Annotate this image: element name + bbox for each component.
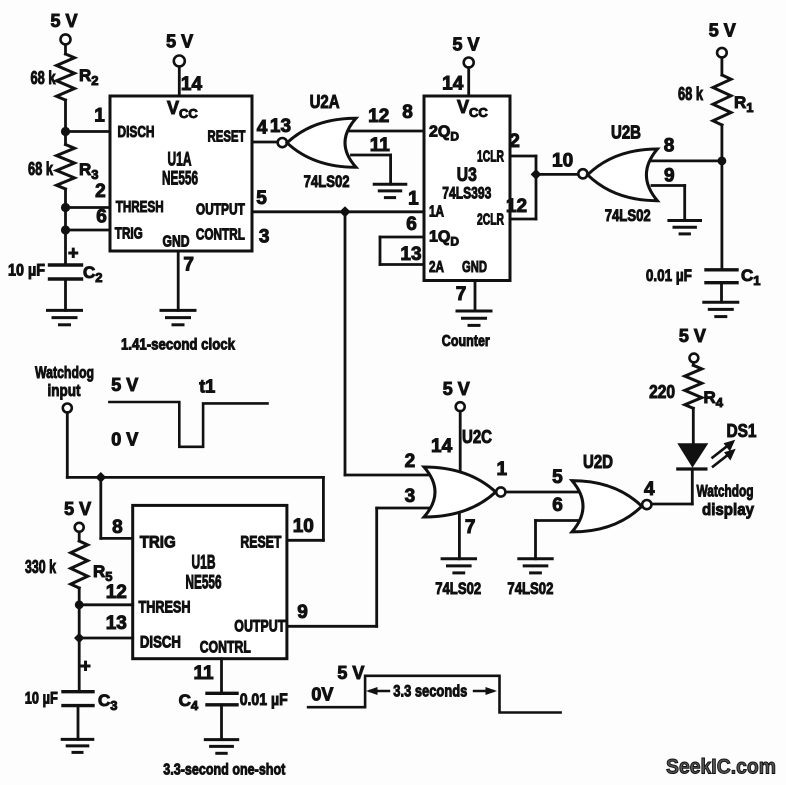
resistor R2 (57, 54, 75, 100)
svg-text:1.41-second clock: 1.41-second clock (121, 337, 235, 354)
svg-text:TRIG: TRIG (140, 533, 176, 552)
LED light arrow 2 (713, 454, 730, 467)
wire 5V to R5 (78, 532, 81, 541)
svg-text:11: 11 (193, 663, 214, 684)
inverter bubble U2D (642, 500, 651, 509)
wire C1 to ground (720, 283, 723, 303)
svg-text:0.01 µF: 0.01 µF (646, 266, 692, 285)
svg-text:7: 7 (183, 255, 194, 276)
wire U1B output to U2C pin3 (287, 625, 377, 628)
wire pin11 to C4 (220, 659, 223, 694)
capacitor C2 (50, 265, 82, 279)
svg-text:2: 2 (95, 181, 106, 202)
svg-text:68 k: 68 k (28, 159, 54, 179)
wire C3 to ground (77, 706, 80, 740)
waveform 3.3s trace (308, 676, 560, 713)
wire to RESET (U1B) (322, 477, 325, 540)
svg-text:12: 12 (106, 582, 127, 603)
svg-text:5 V: 5 V (50, 11, 77, 31)
ground (U2C pin7) (442, 559, 475, 573)
svg-text:5 V: 5 V (64, 499, 91, 519)
wire 1QD-2A feedback loop (380, 236, 424, 239)
svg-text:TRIG: TRIG (115, 225, 143, 242)
svg-text:5 V: 5 V (443, 379, 470, 399)
svg-text:0V: 0V (311, 685, 333, 705)
node DISCH junction (61, 127, 70, 136)
wire pin14 VCC (U3) (467, 68, 470, 97)
input terminal (Watchdog input) (63, 404, 72, 413)
node THRESH junction (61, 203, 70, 212)
wire LED to U2D output (691, 469, 694, 504)
wire pin1 DISCH (66, 130, 111, 133)
ground (below C2) (48, 310, 82, 324)
capacitor C3 (63, 692, 93, 706)
wire U2C pin3 (377, 507, 429, 510)
node THRESH junction (U1B) (75, 600, 84, 609)
LED DS1 triangle (679, 444, 706, 466)
svg-text:74LS02: 74LS02 (304, 172, 350, 191)
svg-text:U2D: U2D (583, 452, 613, 472)
svg-text:DISCH: DISCH (140, 633, 181, 652)
LED light arrow 1 (713, 445, 730, 458)
wire pin2 THRESH (66, 206, 111, 209)
wire node to TRIG (99, 477, 102, 538)
svg-text:4: 4 (257, 118, 268, 139)
svg-text:9: 9 (664, 166, 675, 187)
svg-text:6: 6 (96, 207, 107, 228)
svg-text:Watchdog: Watchdog (35, 363, 94, 382)
svg-text:2A: 2A (429, 259, 444, 276)
wire U1A output junction to U2C pin2 (344, 212, 347, 475)
svg-text:NE556: NE556 (186, 573, 222, 594)
svg-text:2: 2 (405, 451, 416, 472)
svg-text:10 µF: 10 µF (8, 260, 45, 279)
svg-text:10: 10 (293, 516, 314, 537)
wire C2 to ground (64, 279, 67, 310)
wire R3 to C2 (64, 189, 67, 265)
svg-text:220: 220 (649, 382, 675, 402)
ground (U1A pin7) (161, 310, 195, 324)
svg-text:+: + (68, 243, 79, 263)
svg-text:CONTRL: CONTRL (196, 227, 245, 244)
op-amp U1A box (NE556 timer) (110, 96, 252, 251)
svg-text:10 µF: 10 µF (25, 689, 58, 708)
wire 5V to R1 (721, 58, 724, 76)
svg-text:5 V: 5 V (337, 663, 364, 683)
wire pin13 DISCH (79, 637, 133, 640)
svg-text:6: 6 (552, 495, 563, 516)
capacitor C4 (207, 693, 237, 705)
svg-text:5: 5 (552, 467, 563, 488)
svg-text:U2B: U2B (611, 123, 641, 143)
nor-gate U2C (right facing) (424, 467, 496, 517)
node CLR junction (531, 169, 542, 180)
svg-text:68 k: 68 k (31, 68, 57, 88)
wire R5 to C3 (78, 588, 81, 692)
arrow left (3.3 seconds) (370, 690, 389, 692)
wire 1CLR to junction (510, 155, 536, 158)
wire U2A pin12 to U3 2QD (350, 130, 424, 133)
svg-text:2: 2 (509, 131, 520, 152)
wire U2B pin9 (652, 184, 685, 187)
svg-text:1A: 1A (429, 204, 444, 221)
svg-text:3: 3 (259, 226, 270, 247)
svg-text:DS1: DS1 (727, 421, 757, 441)
svg-text:SeekIC.com: SeekIC.com (666, 755, 776, 779)
svg-text:14: 14 (181, 74, 203, 95)
inverter bubble U2B (578, 169, 587, 178)
svg-text:7: 7 (456, 284, 467, 305)
ground (U3 pin7) (457, 311, 491, 325)
ground (below C3) (62, 739, 93, 752)
svg-text:8: 8 (112, 517, 123, 538)
wire pin7 GND (177, 251, 180, 310)
svg-text:5 V: 5 V (709, 21, 736, 41)
svg-text:OUTPUT: OUTPUT (234, 617, 285, 636)
svg-text:14: 14 (431, 436, 453, 457)
svg-text:11: 11 (370, 135, 391, 156)
wire pin7 U2C (458, 513, 461, 559)
svg-text:RESET: RESET (240, 533, 281, 552)
wire pin14 VCC (178, 67, 181, 97)
node R1-C1-pin8 junction (718, 157, 727, 166)
waveform t1 trace (109, 402, 267, 447)
svg-text:1: 1 (94, 106, 105, 127)
wire R1 to C1 (721, 125, 724, 270)
svg-text:1: 1 (497, 459, 508, 480)
inverter bubble U2C (496, 487, 505, 496)
ground (below C1) (704, 302, 738, 316)
svg-text:0 V: 0 V (111, 430, 138, 450)
svg-text:3.3-second one-shot: 3.3-second one-shot (163, 762, 286, 779)
svg-text:68 k: 68 k (678, 84, 704, 104)
capacitor C1 (706, 270, 737, 283)
svg-text:THRESH: THRESH (116, 199, 164, 216)
svg-text:10: 10 (552, 151, 573, 172)
ground (U2D pin6) (519, 559, 552, 573)
wire pin7 GND (U3) (474, 281, 477, 312)
counter U3 box (74LS393) (424, 96, 510, 281)
svg-text:12: 12 (368, 106, 389, 127)
node DISCH junction (U1B) (74, 633, 84, 643)
svg-text:74LS393: 74LS393 (442, 184, 491, 203)
svg-text:0.01 µF: 0.01 µF (240, 690, 288, 709)
svg-text:5 V: 5 V (679, 326, 706, 346)
ground (U2B pin9) (669, 221, 701, 234)
svg-text:330 k: 330 k (25, 557, 57, 577)
timer U1B box (NE556) (133, 505, 287, 658)
wire U1A OUTPUT to U3 1A (252, 210, 424, 213)
svg-text:+: + (80, 656, 91, 676)
svg-text:6: 6 (406, 214, 417, 235)
resistor R1 (713, 75, 731, 125)
svg-text:3.3 seconds: 3.3 seconds (393, 682, 467, 701)
svg-text:5 V: 5 V (166, 31, 193, 51)
nor-gate U2D (right facing) (572, 481, 642, 532)
nor-gate U2A (left facing) (287, 118, 356, 167)
svg-text:RESET: RESET (208, 129, 246, 146)
svg-text:DISCH: DISCH (118, 124, 155, 141)
svg-text:5: 5 (256, 188, 267, 209)
wire pin12 THRESH (79, 603, 133, 606)
svg-text:5 V: 5 V (111, 375, 138, 395)
svg-text:13: 13 (270, 116, 291, 137)
svg-text:U1B: U1B (192, 553, 216, 574)
svg-text:U1A: U1A (168, 150, 192, 171)
svg-text:GND: GND (163, 233, 190, 250)
resistor R3 (57, 145, 75, 190)
svg-text:8: 8 (664, 136, 675, 157)
wire 5V to R2 (64, 44, 67, 54)
wire 5V to U2C pin14 (459, 411, 462, 470)
ground (below C4) (205, 740, 237, 754)
wire U2A pin11 (352, 154, 391, 157)
wire U2B pin8 to R1 node (651, 159, 722, 162)
svg-text:THRESH: THRESH (139, 598, 191, 617)
wire pin6 TRIG (66, 229, 111, 232)
svg-text:NE556: NE556 (162, 169, 198, 190)
svg-text:12: 12 (506, 196, 527, 217)
svg-text:GND: GND (462, 259, 487, 276)
node OUTPUT junction (339, 206, 350, 217)
svg-text:2CLR: 2CLR (477, 212, 504, 229)
wire 2CLR (510, 218, 536, 221)
node TRIG junction (61, 225, 70, 234)
wire U2C output to U2D pin5 (505, 491, 578, 494)
inverter bubble U2A (278, 138, 287, 147)
node watchdog junction (95, 472, 106, 483)
svg-text:14: 14 (442, 74, 464, 95)
wire RESET to U2A bubble (252, 141, 278, 144)
wire R4 to LED (692, 408, 695, 444)
wire C4 to ground (220, 705, 223, 740)
svg-text:Counter: Counter (442, 333, 490, 350)
svg-text:4: 4 (644, 479, 655, 500)
svg-text:13: 13 (106, 613, 127, 634)
wire watchdog horizontal (67, 476, 323, 479)
svg-text:13: 13 (400, 244, 421, 265)
svg-text:1: 1 (408, 189, 419, 210)
svg-text:OUTPUT: OUTPUT (196, 202, 245, 219)
svg-text:U2A: U2A (310, 92, 340, 112)
wire watchdog input down (66, 413, 69, 478)
svg-text:7: 7 (465, 517, 476, 538)
svg-text:t1: t1 (199, 377, 215, 397)
wire U2D pin6 (536, 519, 579, 522)
svg-text:74LS02: 74LS02 (605, 206, 651, 225)
svg-text:CONTRL: CONTRL (200, 638, 251, 657)
svg-text:input: input (48, 381, 81, 400)
svg-text:1CLR: 1CLR (477, 149, 504, 166)
LED DS1 cathode bar (678, 467, 706, 470)
resistor R4 (685, 365, 702, 408)
svg-text:74LS02: 74LS02 (507, 579, 553, 598)
resistor R5 (71, 541, 88, 588)
ground (U2A pin11) (374, 184, 406, 197)
wire 5V to R4 (692, 362, 695, 365)
svg-text:9: 9 (297, 602, 308, 623)
wire junction to U2B bubble (536, 173, 579, 176)
svg-text:8: 8 (402, 102, 413, 123)
svg-text:U2C: U2C (462, 427, 492, 447)
arrow right (3.3 seconds) (474, 690, 493, 692)
svg-text:5 V: 5 V (452, 35, 479, 55)
svg-text:Watchdog: Watchdog (697, 482, 754, 501)
nor-gate U2B (left facing) (588, 149, 658, 201)
svg-text:display: display (702, 500, 754, 519)
wire R2 to node (64, 100, 67, 145)
svg-text:74LS02: 74LS02 (435, 579, 481, 598)
svg-text:3: 3 (405, 486, 416, 507)
